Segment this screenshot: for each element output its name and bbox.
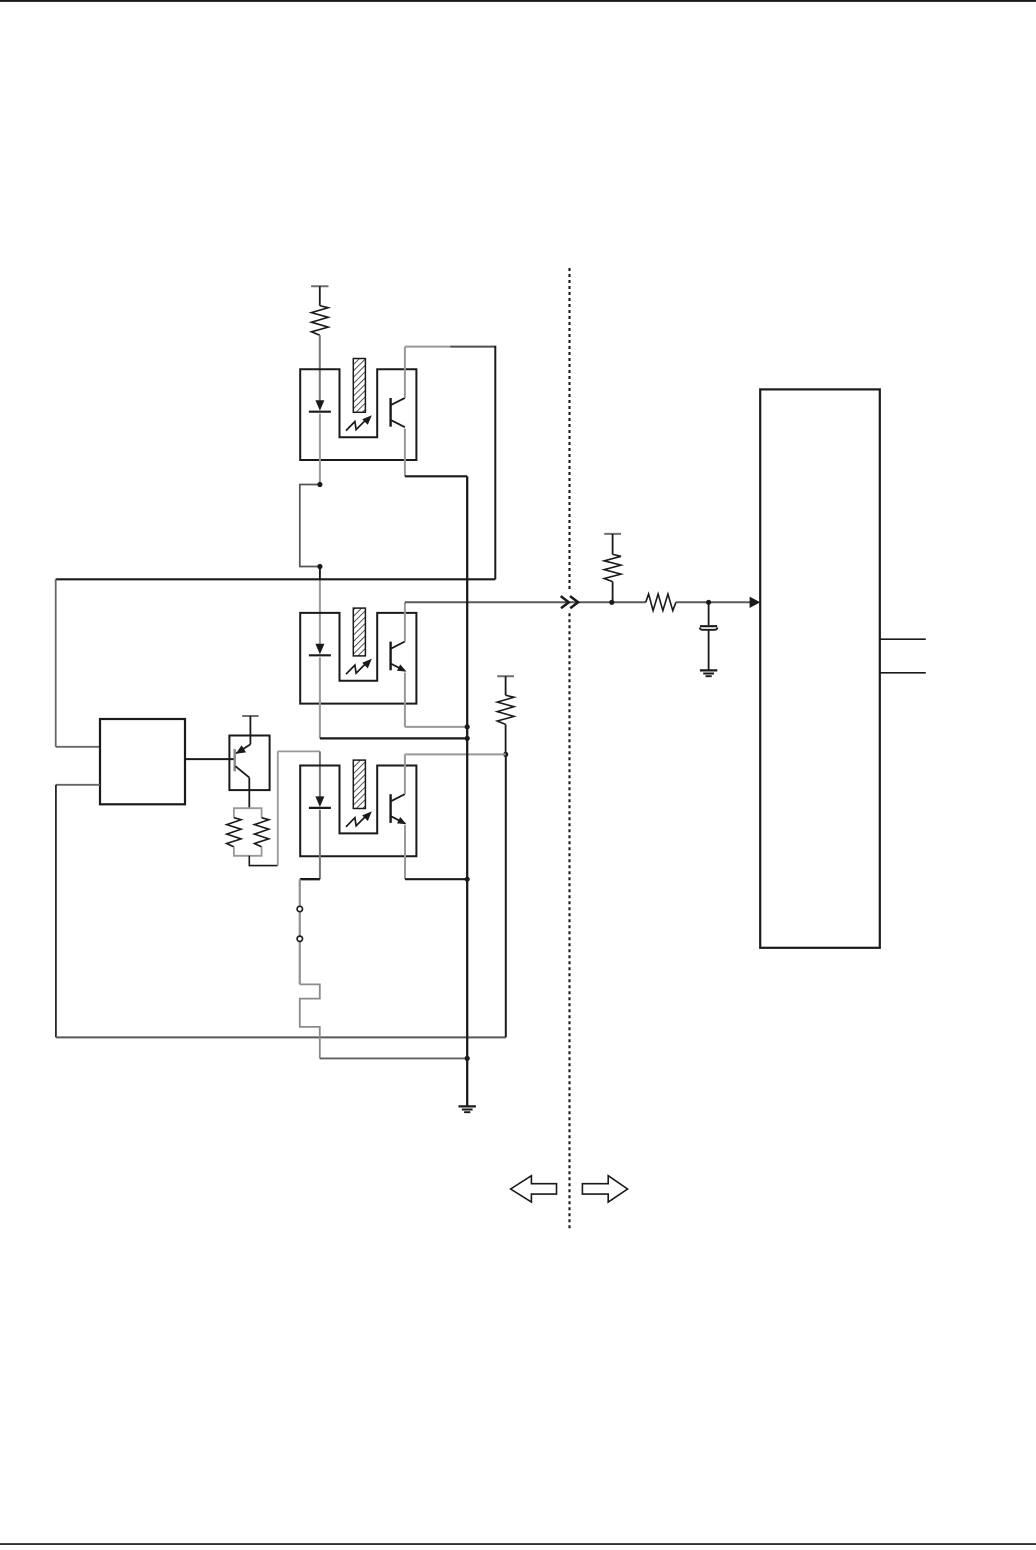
wire LED1 cathode down	[319, 414, 321, 485]
wire R4 top lead	[505, 676, 507, 695]
wire right vertical return up	[505, 754, 507, 1037]
wire U3 collector up	[404, 754, 406, 794]
ground main	[459, 1105, 476, 1107]
wire U3 collector to R4 node	[405, 753, 506, 755]
node junction U3 emitter rail	[465, 877, 470, 882]
page top rule	[0, 0, 1036, 2]
optocoupler U1 body	[300, 369, 416, 460]
resistor R6 (right of pair)	[254, 818, 268, 847]
signal arrowhead into IC	[750, 597, 761, 608]
wire R2 bottom lead	[612, 582, 614, 603]
light arrow of U1	[346, 419, 367, 431]
wire LED3 cathode down	[319, 810, 321, 880]
node junction LED2 cathode rail	[465, 736, 470, 741]
capacitor C1	[700, 625, 717, 627]
resistor R3 (series)	[646, 594, 676, 611]
isolation boundary dashed line	[568, 268, 570, 590]
wire U1 emitter to ground rail	[405, 475, 467, 477]
optocoupler U3 optical barrier	[353, 760, 365, 808]
wire pair bottom stub	[249, 856, 277, 866]
wire bottom horizontal return	[56, 1036, 506, 1038]
wire signal line right part	[676, 601, 750, 603]
phototransistor of U3	[389, 794, 391, 823]
light arrow of U3	[346, 815, 367, 827]
wire U1 emitter down	[404, 429, 406, 477]
wire jog left loop	[300, 485, 320, 567]
IC U4 right pin stub 1	[880, 638, 926, 640]
wire R1 to LED1 anode	[319, 335, 321, 401]
optocoupler U3 body	[300, 766, 416, 857]
ground below C1	[700, 669, 717, 671]
wire C1 top lead	[708, 602, 710, 625]
wire R2 top lead	[612, 534, 614, 555]
right direction arrow	[582, 1176, 627, 1202]
wire driver pin 1	[56, 746, 100, 748]
node junction LED1 jog bottom	[317, 564, 322, 569]
wire U1 collector up	[404, 347, 406, 398]
node junction LED1 jog top	[317, 482, 322, 487]
wire up to LED3 anode net	[277, 751, 279, 865]
phototransistor of U2	[389, 642, 391, 671]
resistor R2	[604, 554, 621, 581]
wire U3 emitter down	[404, 825, 406, 879]
optocoupler U1 optical barrier	[353, 359, 365, 413]
resistor pair top bracket	[234, 808, 262, 818]
connector pin circle 1	[297, 906, 302, 911]
wire driver output to Q1 base	[185, 758, 235, 760]
chevron 2	[570, 596, 578, 608]
power rail T for R4	[497, 675, 514, 677]
node junction bottom rail	[465, 1056, 470, 1061]
wire U3 emitter to rail	[405, 878, 467, 880]
optocoupler U2 optical barrier	[353, 608, 365, 656]
node junction C1	[706, 600, 711, 605]
wire R1 top lead	[319, 286, 321, 305]
LED of U2	[315, 644, 324, 655]
wire staircase to rail	[300, 984, 320, 1058]
resistor R5 (left of pair)	[227, 818, 241, 847]
IC U4 right pin stub 2	[880, 672, 926, 674]
optocoupler U2 body	[300, 613, 416, 704]
left direction arrow	[511, 1176, 557, 1202]
transistor Q1 box	[229, 736, 269, 791]
page bottom rule	[0, 1543, 1036, 1545]
driver block A1	[100, 719, 185, 804]
connector pin circle 2	[297, 936, 302, 941]
resistor pair bottom bracket	[234, 847, 262, 856]
LED of U1	[315, 400, 324, 411]
wire top loop down	[494, 346, 496, 580]
node junction R4 / U3 collector	[503, 752, 508, 757]
LED of U3	[315, 796, 324, 807]
wire Q1 emitter lead	[249, 716, 251, 744]
wire horizontal net to driver box	[56, 578, 496, 580]
resistor R4	[497, 695, 514, 724]
IC U4 block	[760, 389, 880, 947]
node junction U2 emitter rail	[465, 724, 470, 729]
wire LED3 cathode left	[300, 878, 320, 880]
wire U2 emitter to rail	[405, 726, 467, 728]
wire R4 bottom lead	[505, 724, 507, 754]
wire LED2 cathode down	[319, 657, 321, 738]
wire connector segment with pins	[299, 879, 301, 984]
node junction R2	[609, 600, 614, 605]
wire U2 collector up to signal	[404, 602, 406, 641]
resistor R1	[311, 306, 328, 336]
wire C1 bottom lead	[708, 630, 710, 671]
power rail T for R1	[311, 285, 328, 287]
transistor Q1 (PNP)	[233, 749, 236, 771]
wire LED2 cathode to rail	[320, 737, 467, 739]
wire ground rail vertical	[466, 476, 468, 1106]
wire U2 emitter down	[404, 673, 406, 727]
power rail T for R2	[604, 533, 621, 535]
wire top loop horizontal	[405, 346, 450, 348]
light arrow of U2	[346, 662, 367, 674]
wire left vertical to driver pin 1	[55, 579, 57, 747]
wire signal line left part	[405, 601, 646, 603]
wire LED3 anode down	[319, 751, 321, 797]
wire left vertical down	[55, 785, 57, 1038]
chevron 1	[561, 596, 569, 608]
wire bottom to ground rail	[320, 1057, 467, 1059]
power rail T for Q1	[242, 715, 258, 717]
wire LED1 cathode to LED2 anode	[319, 567, 321, 581]
wire driver pin 2	[56, 784, 100, 786]
phototransistor of U1	[389, 398, 391, 427]
wire Q1 collector	[248, 778, 250, 809]
